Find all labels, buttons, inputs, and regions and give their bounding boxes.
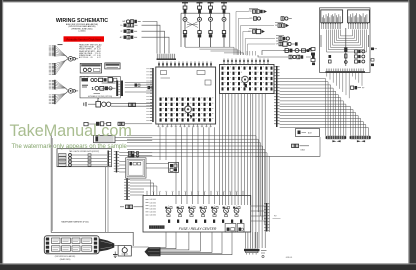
watermark TakeManual.com [10,122,132,140]
connector P1 label [58,44,63,46]
tail lights worklights box [57,149,112,167]
attachment connector small box right [296,129,320,137]
connector P2 lower pin comb [49,94,56,104]
connector P1 upper pin comb [49,45,56,56]
small terminal marks right [309,48,313,51]
starter motor long wire [262,51,310,56]
tail lights box right comb [108,151,111,167]
ECU box outline [320,8,371,73]
wires: comb C3 to relay center [130,180,157,196]
wire: sender to fuse box [111,103,152,106]
title: WIRING SCHEMATIC [56,18,108,24]
cab harness comb C3 [124,179,130,201]
svg-text:0-00 000: 0-00 000 [150,215,156,217]
svg-text:ES: ES [276,38,278,40]
aux sensor glyphs right of ECU [371,48,377,67]
relay K4 [200,205,207,217]
legend text block [79,43,101,59]
svg-text:TakeManual.com: TakeManual.com [10,122,132,140]
chassis harness plug arrow [145,247,161,256]
vertical wire bundle V2 fuse box to relay center [160,127,215,204]
ground elbow wires to chassis plug [161,232,233,255]
relay K1 [165,205,172,217]
sender chain mini labels [249,8,284,41]
ground text label [286,257,293,259]
glow plug stack G3 [208,3,214,47]
svg-text:'-0: '-0 [223,1,225,3]
svg-text:DIAG: DIAG [301,149,306,152]
crossover wires between stacks [187,22,199,28]
svg-text:'-0: '-0 [210,1,212,3]
ECU center column components [344,28,347,66]
wire wedge to accessory box [114,246,148,248]
svg-text:0-00 000: 0-00 000 [150,202,156,204]
glow plug stack G1 [182,3,188,47]
oil pressure sender chain [249,17,260,21]
watermark subtitle [12,144,128,150]
wire bundle: comb to harness connector CN1 [280,79,346,136]
vertical wire bundle V1 engine block to fuse relay center [220,94,251,206]
inline splice S1 [135,84,141,87]
bulkhead connector comb pair J3 [116,81,123,97]
fuse box top pins [158,62,212,68]
air filter switch chain [248,29,265,33]
flasher component [169,162,179,172]
title subtext lines [66,23,98,33]
fuel sender component [84,98,111,107]
connector P1 lower pin comb [49,63,56,75]
glow plug stack G4 [221,3,227,47]
relay K2 [177,205,184,217]
wires relay center to comb P2 [251,206,264,221]
fuse relay center label [179,227,217,231]
fuse box bottom pin labels [157,124,212,127]
glow plug stack G2 [197,3,203,47]
svg-text:'-0: '-0 [184,1,186,3]
mainframe harness boundary wire [51,133,133,246]
wire: tail lights feed down to mainframe [106,167,109,232]
chassis ground symbol [113,252,118,258]
diagnostic connector pair [292,144,310,152]
comb above fuse box [157,54,177,60]
engine fuse block outline [220,65,275,94]
ECU left side pins [329,55,332,63]
fuse grid in fuse box [160,98,214,122]
junction box [94,136,116,143]
block bottom labels [55,255,76,261]
ECU bottom comb [326,69,366,73]
svg-text:OPS: OPS [249,18,252,20]
relay center internal comb [149,225,165,228]
svg-text:(+0000): (+0000) [79,31,86,33]
battery chain row 2 [121,23,138,27]
relay K6 [223,205,230,217]
wire: lower loop to attachment [255,137,320,156]
relay K5 [211,205,218,217]
instrument panel box [80,63,101,73]
hydraulic filter option box [80,76,121,99]
relay center pin label column [146,199,156,217]
engine fuse block grid [222,67,275,91]
svg-text:'-0: '-0 [199,1,201,3]
switch box [105,63,120,69]
connector P1 plug symbol [68,57,78,62]
svg-text:0-00 000: 0-00 000 [150,212,156,214]
wires: chains to comb above fuse box [142,22,170,54]
starter chain row 3 [120,29,137,33]
svg-text:CTS: CTS [248,11,251,13]
beacon connector pair [118,122,152,125]
ECU connector block B [348,10,370,29]
wires junction box to main bundle [115,138,152,141]
svg-text:TAIL LIGHTS / WORKLIGHTS (FRON: TAIL LIGHTS / WORKLIGHTS (FRONT) [69,150,100,153]
svg-text:ACC PLUG . . 05: ACC PLUG . . 05 [79,56,93,59]
ECU nested U wiring [327,30,367,53]
ECU side labels [321,35,369,47]
engine block connector top pins [223,59,268,65]
ECU connector block A [321,10,343,29]
svg-text:GP: GP [276,44,278,46]
connector P2 fan wires [56,80,69,103]
svg-text:MAINFRAME HARNESS (P100): MAINFRAME HARNESS (P100) [61,221,89,224]
small relays left of ECU box [311,48,315,66]
fuse box outline [156,67,216,124]
starter solenoid components [285,49,309,53]
harness connector bar CN2 [350,136,371,142]
horizontal harness bundle H1 [127,136,269,232]
svg-text:ST: ST [120,31,122,33]
svg-text:B+: B+ [121,25,123,27]
coolant temp sender chain [248,10,267,14]
svg-text:0-00 000: 0-00 000 [150,209,156,211]
fuse box left pin comb [146,68,154,122]
stack top labels [184,1,225,3]
battery terminal comb [244,232,260,255]
relay center corner box B [237,224,244,233]
svg-text:HYDRAULIC FILTER (OPTION): HYDRAULIC FILTER (OPTION) [88,95,112,98]
svg-text:(REAR VIEW): (REAR VIEW) [60,258,71,261]
bottom connector block body [44,236,99,254]
connector pair J6 [129,103,136,106]
connector P2 upper pin comb [49,80,56,90]
battery chain row 1 [123,20,141,24]
svg-text:(S/N 528111001 & ABOVE): (S/N 528111001 & ABOVE) [55,255,76,258]
svg-text:FS: FS [275,25,277,27]
accessory relay box bottom [118,246,131,256]
fuse relay center top pins [146,191,244,195]
vertical connector comb right of relay center [264,203,281,232]
svg-text:0-00 000: 0-00 000 [150,199,156,201]
oil temp component [84,122,96,125]
engine block right pin comb [274,66,280,127]
nested feed elbows to sender chains [236,12,275,56]
wire bundle: comb to harness connector CN2 [280,107,369,136]
connector P1 fan wires [56,46,69,75]
harness connector bar CN1 [326,136,347,142]
red banner: Printable Version Click Here [64,36,105,41]
wire bundle: ECU bottom drops [327,73,362,98]
horn component row [96,122,111,126]
svg-text:FUSE / RELAY CENTER: FUSE / RELAY CENTER [179,227,217,231]
block wedge connector [99,239,114,252]
relay center left connector pair [120,205,143,209]
svg-text:GND-01: GND-01 [286,257,293,259]
fuel shutoff chain [275,24,289,28]
wires: stacks down to engine connector pins [185,47,255,55]
fuse relay center outline [143,196,251,233]
wires: module box to flasher [146,164,169,169]
fuse box internal relay marks [161,71,212,86]
svg-text:The watermark only appears on: The watermark only appears on the sample [12,144,128,150]
stack frame box [181,13,230,47]
engine sender chain 5 [276,37,290,41]
mainframe harness label [61,221,89,224]
relay K3 [188,205,195,217]
relay K7 [233,205,240,217]
engine sender chain 6 [276,42,298,46]
vertical wire bundle V1b to battery terminal [253,94,265,249]
glow relay chain row 3 [258,55,315,59]
fuel pump component right [351,86,366,90]
svg-text:0-00 000: 0-00 000 [150,205,156,207]
rear light chains [119,151,152,172]
rear harness comb C2 [114,151,119,173]
wire: panel to fuse box upper [102,83,153,93]
svg-text:0-17: 0-17 [97,57,101,59]
connector P2 plug symbol [68,89,78,94]
svg-text:2: 2 [97,98,99,102]
ECU right side sensor rows [355,50,365,63]
battery symbol labels [261,251,267,258]
alternator chain row 4 [120,35,137,39]
inline splice S2 [148,86,153,89]
svg-text:Printable Version Click Here: Printable Version Click Here [66,37,101,41]
relay center small fuses row [168,220,242,223]
turn signal module nested box [126,158,147,178]
relay center corner box A [225,224,236,233]
